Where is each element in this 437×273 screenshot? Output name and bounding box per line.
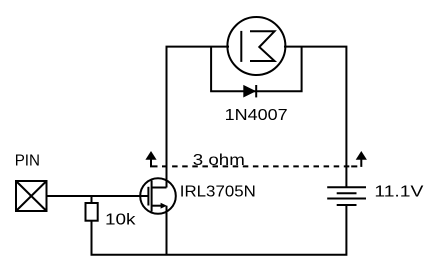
svg-text:10k: 10k (105, 212, 137, 229)
svg-text:1N4007: 1N4007 (225, 107, 288, 124)
svg-text:3 ohm: 3 ohm (193, 152, 245, 169)
svg-text:PIN: PIN (15, 153, 40, 170)
svg-text:IRL3705N: IRL3705N (180, 183, 256, 200)
svg-text:11.1V: 11.1V (374, 183, 423, 200)
